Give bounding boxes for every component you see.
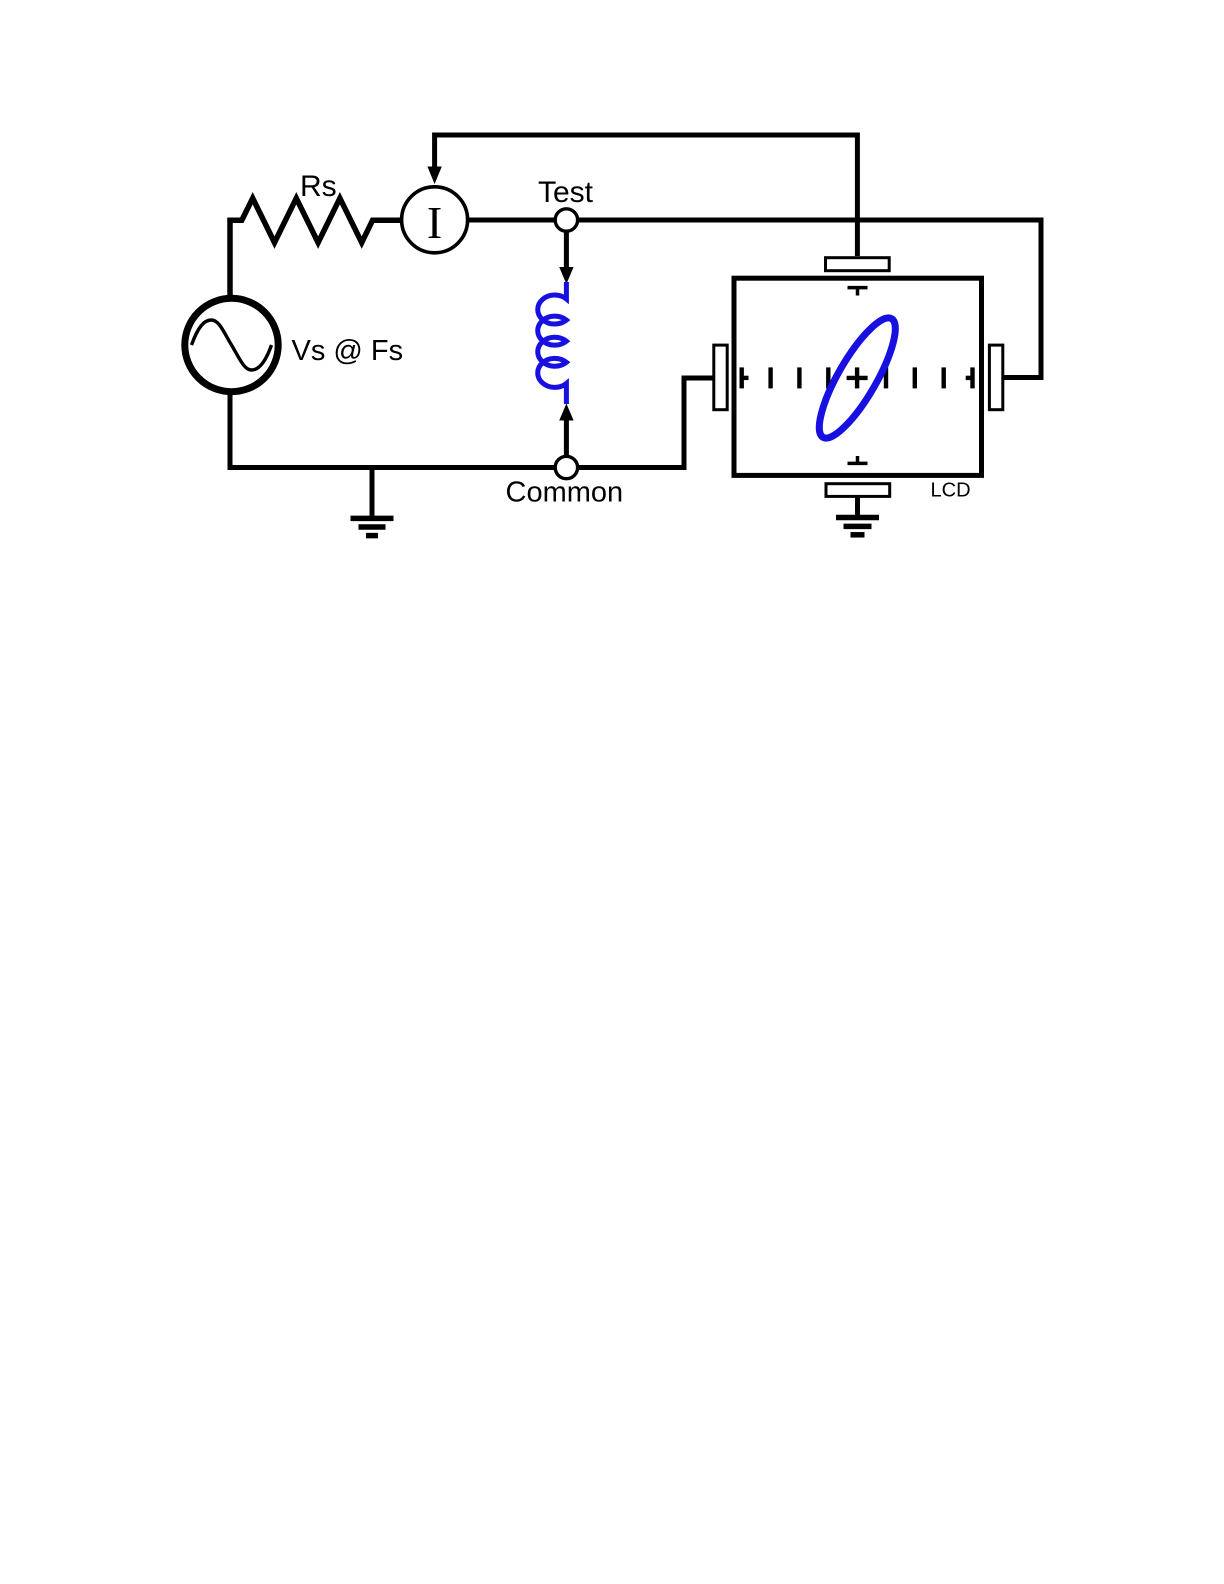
wire bottom plate stem to ground	[855, 497, 860, 516]
wire ammeter to Test node to right corner down to right plate	[467, 220, 1041, 378]
LCD box	[734, 278, 982, 475]
tick	[884, 367, 888, 388]
ammeter I circle	[402, 187, 468, 253]
center cross tick	[855, 367, 859, 388]
ground at LCD bottom plate	[836, 515, 879, 521]
wire inductor bottom to Common node with up arrowhead	[559, 404, 573, 421]
svg-text:Test: Test	[538, 176, 594, 209]
LCD bottom plate	[826, 484, 890, 497]
right end tick	[970, 367, 974, 388]
LCD top plate	[826, 258, 890, 271]
LCD left plate	[714, 345, 727, 410]
LCD horizontal axis tick marks	[742, 367, 973, 388]
ground at source bottom rail	[370, 468, 375, 519]
resistor Rs (zigzag) with wire from source top and wire to ammeter	[230, 198, 402, 296]
arrowhead into ammeter	[427, 167, 441, 185]
bottom axis tick	[848, 462, 868, 466]
svg-text:Rs: Rs	[300, 170, 337, 203]
wire bottom rail from source to LCD left plate	[230, 378, 713, 468]
inductor under test (blue coil)	[538, 282, 567, 404]
left end tick	[740, 367, 744, 388]
node Test	[555, 209, 577, 231]
tick	[913, 367, 917, 388]
svg-text:LCD: LCD	[931, 480, 971, 502]
tick	[797, 367, 801, 388]
svg-text:Vs @ Fs: Vs @ Fs	[292, 335, 404, 367]
sine wave inside source	[192, 320, 272, 370]
wire: feedback from ammeter top to LCD top plate stem	[435, 135, 858, 256]
node Common	[555, 456, 577, 478]
Lissajous ellipse trace	[807, 309, 908, 447]
voltage source Vs circle	[185, 298, 278, 391]
tick	[826, 367, 830, 388]
LCD right plate	[989, 345, 1002, 410]
wire vertical Test node down to inductor with arrowhead	[564, 230, 569, 268]
tick	[768, 367, 772, 388]
tick	[942, 367, 946, 388]
top axis tick	[848, 286, 868, 290]
svg-text:I: I	[427, 197, 442, 248]
svg-text:Common: Common	[506, 476, 624, 508]
